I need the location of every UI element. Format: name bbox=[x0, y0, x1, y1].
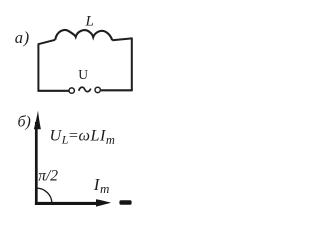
wire right side bbox=[131, 38, 133, 91]
wire left side bbox=[37, 44, 39, 92]
svg-text:а): а) bbox=[15, 28, 30, 47]
wire top-right segment bbox=[112, 38, 132, 40]
terminal circle left bbox=[69, 88, 74, 93]
phasor UL arrowhead bbox=[34, 111, 41, 130]
terminal circle right bbox=[95, 87, 100, 92]
horizontal axis line bbox=[35, 202, 99, 205]
svg-text:L: L bbox=[85, 14, 94, 30]
wire bottom-left segment bbox=[38, 90, 69, 92]
phasor UL vertical arrow shaft bbox=[35, 122, 38, 205]
svg-text:UL=ωLIm: UL=ωLIm bbox=[50, 126, 116, 147]
wire bottom-right segment bbox=[101, 89, 133, 91]
svg-text:π/2: π/2 bbox=[38, 168, 58, 185]
angle arc bbox=[37, 188, 52, 203]
svg-text:U: U bbox=[78, 67, 88, 82]
svg-text:б): б) bbox=[18, 114, 31, 131]
AC tilde symbol bbox=[79, 87, 91, 91]
axis continuation dash bbox=[119, 200, 131, 204]
wire top-left segment bbox=[38, 40, 55, 44]
Im arrowhead bbox=[96, 199, 111, 206]
inductor L coil bbox=[55, 30, 112, 40]
